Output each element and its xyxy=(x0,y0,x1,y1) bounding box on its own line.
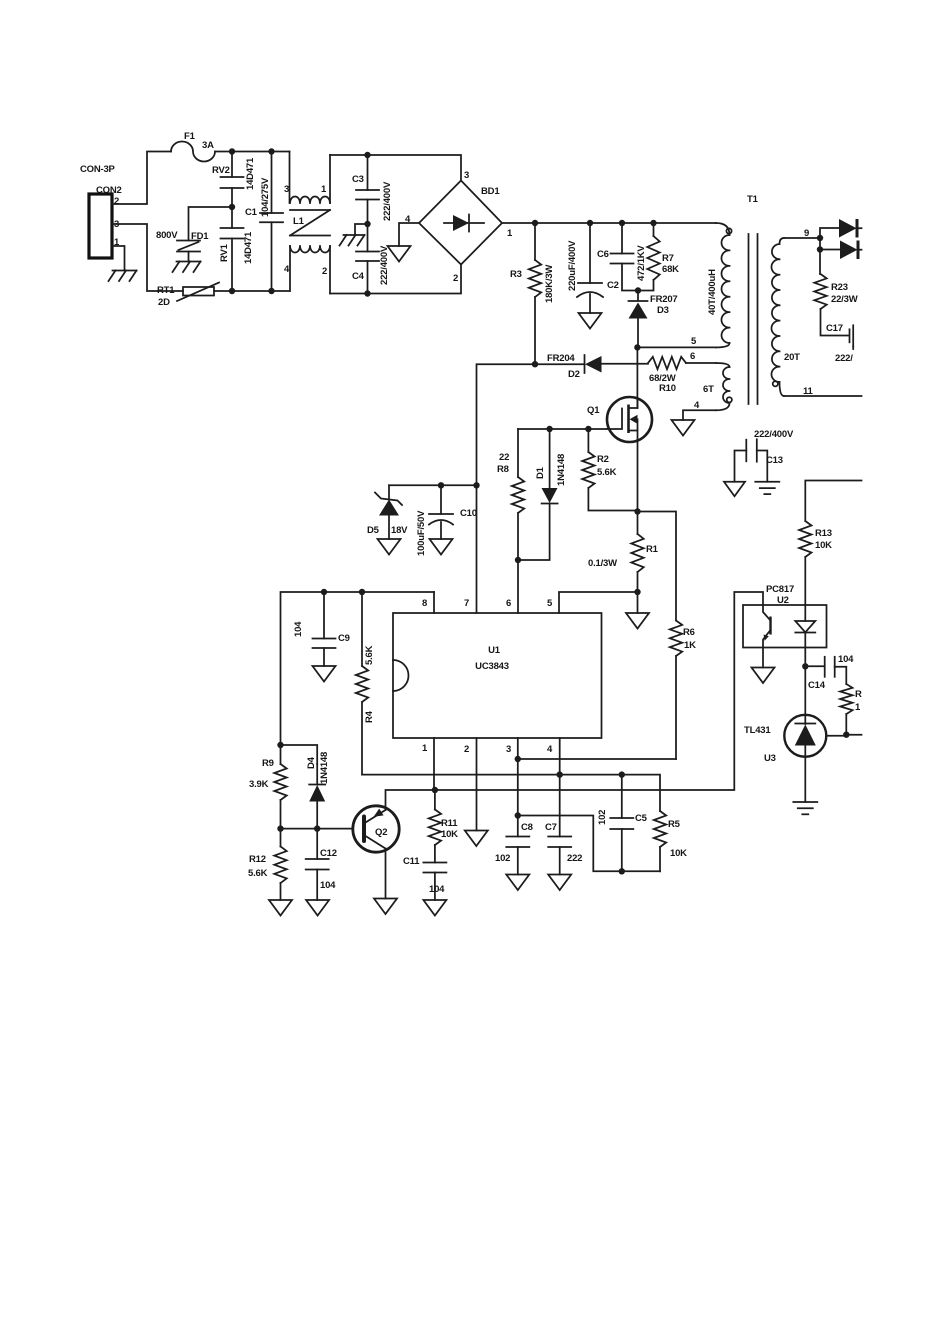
svg-text:2: 2 xyxy=(322,266,327,277)
svg-text:6T: 6T xyxy=(703,384,714,395)
wire pin9 dots xyxy=(819,238,821,250)
resistor R1 xyxy=(588,512,659,593)
capacitor 220uF/400V bulk xyxy=(567,223,603,313)
ground at T1 pin4 xyxy=(672,420,695,436)
svg-text:U1: U1 xyxy=(488,645,501,656)
svg-text:102: 102 xyxy=(597,810,608,825)
capacitor C14 xyxy=(805,654,854,691)
svg-text:3: 3 xyxy=(464,170,469,181)
resistor R23 xyxy=(814,250,857,336)
wire RT1 to L1 pin4 (bottom-left bus) xyxy=(214,290,290,292)
svg-text:R10: R10 xyxy=(659,383,676,394)
svg-text:R13: R13 xyxy=(815,528,832,539)
optocoupler U2 PC817 xyxy=(743,584,827,666)
node dot R9 top xyxy=(277,742,283,748)
wire source node to R6 xyxy=(638,512,677,621)
node dot TL431 ref node xyxy=(843,732,849,738)
svg-text:22/3W: 22/3W xyxy=(831,294,858,305)
wire R6 bottom to pin3 xyxy=(518,758,676,760)
wire opto emitter to ground xyxy=(762,648,764,668)
earth at C13 xyxy=(755,482,779,494)
svg-text:U3: U3 xyxy=(764,753,776,764)
svg-text:PC817: PC817 xyxy=(766,584,794,595)
resistor R2 xyxy=(582,429,637,511)
svg-text:9: 9 xyxy=(804,228,809,239)
ground at bulk cap xyxy=(579,313,602,329)
resistor R10 xyxy=(648,357,686,394)
svg-text:222/400V: 222/400V xyxy=(382,181,393,221)
node dot VCC rail xyxy=(473,482,479,488)
svg-text:R2: R2 xyxy=(597,454,609,465)
node dot divider mid xyxy=(277,825,283,831)
svg-text:800V: 800V xyxy=(156,230,178,241)
node dot R7 top xyxy=(650,220,656,226)
wire divider to Q2 base xyxy=(281,828,364,830)
resistor R13 xyxy=(799,521,832,605)
wire L1 pin2 to bridge bottom xyxy=(330,264,461,294)
capacitor C17 xyxy=(826,323,853,364)
chassis ground at C3/C4 midpoint xyxy=(340,235,365,246)
svg-text:C7: C7 xyxy=(545,822,557,833)
diode D2 FR204 xyxy=(547,353,602,380)
wire R13 top xyxy=(805,481,861,522)
ground at pin2 xyxy=(465,831,488,847)
wire fuse to L1 pin3 (top-left bus) xyxy=(215,151,290,153)
svg-text:RV2: RV2 xyxy=(212,165,230,176)
wire HV bus BD1 pin1 to T1 pin1 xyxy=(502,222,716,224)
bridge rectifier BD1 xyxy=(405,170,513,284)
node dot C1 top xyxy=(268,148,274,154)
ground at C9 xyxy=(313,666,336,682)
node dot TL431 cathode node xyxy=(802,663,808,669)
wire BD1 pin4 to primary ground xyxy=(399,223,419,246)
svg-text:4: 4 xyxy=(694,400,700,411)
svg-text:11: 11 xyxy=(803,386,814,397)
ground at R12 xyxy=(269,900,292,916)
ground at C8 xyxy=(506,875,529,891)
node dot C2 top xyxy=(619,220,625,226)
svg-text:6: 6 xyxy=(690,351,695,362)
svg-text:1: 1 xyxy=(855,702,861,713)
inductor L1 (common-mode choke) xyxy=(284,152,330,294)
node dot pin9 b xyxy=(817,246,823,252)
capacitor C1 xyxy=(245,152,283,292)
resistor R4 xyxy=(356,592,375,775)
transformer T1 secondary 20T winding xyxy=(771,238,800,396)
svg-text:T1: T1 xyxy=(747,194,759,205)
resistor R14 xyxy=(840,684,862,735)
svg-text:TL431: TL431 xyxy=(744,725,771,736)
svg-text:5: 5 xyxy=(691,336,697,347)
svg-text:C4: C4 xyxy=(352,271,365,282)
svg-text:10K: 10K xyxy=(441,829,458,840)
svg-text:C2: C2 xyxy=(607,280,619,291)
ground at opto emitter xyxy=(752,668,775,684)
wire L1 pin1 to bridge (top bus) xyxy=(330,155,461,181)
svg-text:D1: D1 xyxy=(535,466,546,479)
svg-text:R5: R5 xyxy=(668,819,681,830)
svg-text:C1: C1 xyxy=(245,207,258,218)
node dot C12 top xyxy=(314,825,320,831)
svg-text:1: 1 xyxy=(422,743,428,754)
wire junction to FD1 xyxy=(189,207,233,241)
svg-text:FR207: FR207 xyxy=(650,294,678,305)
svg-text:1N4148: 1N4148 xyxy=(556,454,567,486)
wire pin1 stub xyxy=(433,738,435,790)
svg-text:7: 7 xyxy=(464,598,469,609)
svg-text:100uF/50V: 100uF/50V xyxy=(416,510,427,556)
node dot C5 top xyxy=(619,771,625,777)
resistor R12 xyxy=(248,829,287,900)
connector CON2 (CON-3P) xyxy=(80,164,122,258)
svg-text:8: 8 xyxy=(422,598,427,609)
wire CON2 pin2 to fuse xyxy=(112,152,171,205)
svg-text:222: 222 xyxy=(567,853,582,864)
svg-text:22: 22 xyxy=(499,452,509,463)
capacitor C7 xyxy=(545,738,582,875)
svg-text:2D: 2D xyxy=(158,297,170,308)
svg-text:FR204: FR204 xyxy=(547,353,575,364)
svg-text:4: 4 xyxy=(547,744,553,755)
ground at C12 xyxy=(306,900,329,916)
wire R9 top to D4 xyxy=(281,745,318,764)
resistor R3 xyxy=(510,223,555,364)
svg-text:C6: C6 xyxy=(597,249,609,260)
svg-text:5.6K: 5.6K xyxy=(597,467,617,478)
svg-text:2: 2 xyxy=(114,196,119,207)
node dot D1 top xyxy=(546,426,552,432)
svg-text:1K: 1K xyxy=(684,640,696,651)
svg-text:D3: D3 xyxy=(657,305,669,316)
wire T1 pin6 from R10 xyxy=(686,351,716,363)
node dot RV2 top xyxy=(229,148,235,154)
svg-text:3.9K: 3.9K xyxy=(249,779,269,790)
diode D output bottom xyxy=(820,241,862,260)
capacitor C2 (snubber) xyxy=(597,223,647,291)
fuse F1 xyxy=(171,131,215,162)
diode D1 1N4148 xyxy=(518,429,567,560)
node dot pin9 a xyxy=(817,235,823,241)
svg-text:L1: L1 xyxy=(293,216,305,227)
wire gate rail xyxy=(518,428,607,430)
capacitor C5 xyxy=(597,775,648,872)
node dot pin4 bus xyxy=(557,771,563,777)
svg-text:C11: C11 xyxy=(403,856,420,867)
svg-text:C10: C10 xyxy=(460,508,477,519)
wire pin1 node to optocoupler xyxy=(435,592,763,790)
capacitor C4 xyxy=(352,224,390,294)
svg-text:68K: 68K xyxy=(662,264,679,275)
svg-text:R23: R23 xyxy=(831,282,848,293)
wire RT/CT bus xyxy=(362,775,660,811)
capacitor C11 xyxy=(403,856,446,900)
svg-text:104: 104 xyxy=(293,621,304,637)
svg-text:472/1KV: 472/1KV xyxy=(636,245,647,281)
svg-text:102: 102 xyxy=(495,853,510,864)
svg-text:104: 104 xyxy=(429,884,445,895)
capacitor C9 xyxy=(293,592,350,666)
wire T1 pin4 to ground xyxy=(683,400,716,420)
svg-text:U2: U2 xyxy=(777,595,789,606)
node dot RV2/RV1 junction xyxy=(229,204,235,210)
node dot C1 bottom xyxy=(268,288,274,294)
svg-text:R9: R9 xyxy=(262,758,274,769)
ground at C7 xyxy=(548,875,571,891)
node dot C3 top xyxy=(364,152,370,158)
resistor R7 (snubber) xyxy=(638,223,679,291)
node dot R8/D1 bottom xyxy=(515,557,521,563)
svg-text:10K: 10K xyxy=(815,540,832,551)
svg-text:R: R xyxy=(855,689,862,700)
ground (primary) at BD1 pin4 xyxy=(388,246,411,262)
node dot C4 bottom xyxy=(364,290,370,296)
diode D output top xyxy=(820,219,862,238)
node dot R4 top xyxy=(359,589,365,595)
svg-text:3: 3 xyxy=(284,184,289,195)
node dot pin3/R6 xyxy=(515,756,521,762)
svg-text:3A: 3A xyxy=(202,140,214,151)
svg-text:C9: C9 xyxy=(338,633,350,644)
svg-text:0.1/3W: 0.1/3W xyxy=(588,558,617,569)
svg-text:Q1: Q1 xyxy=(587,405,600,416)
svg-text:Q2: Q2 xyxy=(375,827,387,838)
wire R1 bottom to ground xyxy=(637,592,639,613)
svg-text:RT1: RT1 xyxy=(157,285,175,296)
transformer T1 core xyxy=(749,234,758,404)
node dot R1 bottom xyxy=(634,589,640,595)
resistor R5 xyxy=(654,811,687,871)
svg-text:F1: F1 xyxy=(184,131,196,142)
ground at Q2 xyxy=(374,899,397,915)
svg-text:14D471: 14D471 xyxy=(243,231,254,264)
node dot Q1 source node xyxy=(634,508,640,514)
svg-text:220uF/400V: 220uF/400V xyxy=(567,240,578,291)
svg-text:C3: C3 xyxy=(352,174,364,185)
svg-text:D2: D2 xyxy=(568,369,580,380)
svg-text:C14: C14 xyxy=(808,680,826,691)
ground at D5 xyxy=(378,539,401,555)
diode D3 FR207 xyxy=(629,291,678,348)
capacitor C13 222/400V xyxy=(735,429,794,482)
svg-text:104/275V: 104/275V xyxy=(260,177,271,217)
spark gap FD1 xyxy=(156,230,209,262)
svg-text:D4: D4 xyxy=(306,756,317,769)
wire slope-comp rail to C8 node xyxy=(518,816,660,872)
svg-text:4: 4 xyxy=(284,264,290,275)
node dot pin1 node xyxy=(432,787,438,793)
capacitor C3 xyxy=(352,155,393,224)
svg-text:2: 2 xyxy=(453,273,458,284)
svg-text:1: 1 xyxy=(507,228,513,239)
svg-text:222/400V: 222/400V xyxy=(754,429,794,440)
svg-text:R3: R3 xyxy=(510,269,522,280)
wire pin3 stub xyxy=(517,738,519,816)
svg-text:UC3843: UC3843 xyxy=(475,661,509,672)
node dot T1 pin5 junction xyxy=(634,344,640,350)
chassis ground under FD1 xyxy=(173,262,201,273)
svg-text:R8: R8 xyxy=(497,464,509,475)
svg-text:5.6K: 5.6K xyxy=(248,868,268,879)
svg-text:18V: 18V xyxy=(391,525,408,536)
wire CON2 pin1 to chassis xyxy=(112,246,125,271)
svg-text:3: 3 xyxy=(506,744,511,755)
wire D2 cathode to VCC (pin7 line) xyxy=(477,364,585,613)
svg-text:6: 6 xyxy=(506,598,511,609)
svg-text:RV1: RV1 xyxy=(219,243,230,262)
svg-text:C13: C13 xyxy=(766,455,783,466)
svg-text:CON2: CON2 xyxy=(96,185,122,196)
svg-text:40T/400uH: 40T/400uH xyxy=(707,269,718,315)
wire secondary pin11 xyxy=(784,386,862,397)
wire midpoint to chassis xyxy=(355,224,368,235)
capacitor C12 xyxy=(306,829,337,900)
transistor Q2 (PNP) xyxy=(353,790,435,899)
chassis ground at CON2 pin1 xyxy=(109,271,137,282)
node dot bulk cap top xyxy=(587,220,593,226)
varistor RV2 xyxy=(212,152,256,208)
diode D4 1N4148 xyxy=(306,752,330,829)
resistor R6 xyxy=(670,621,696,760)
node dot C3/C4 midpoint xyxy=(364,221,370,227)
wire pin2 stub to ground xyxy=(476,738,478,831)
wire secondary pin9 xyxy=(784,228,820,239)
node dot R3 bottom at D2 wire xyxy=(532,361,538,367)
svg-text:C17: C17 xyxy=(826,323,843,334)
svg-text:5.6K: 5.6K xyxy=(364,645,375,665)
wire R10 to D2 xyxy=(602,363,649,365)
svg-text:R1: R1 xyxy=(646,544,659,555)
wire pin8 stub xyxy=(433,592,435,613)
ground at C13 xyxy=(724,482,745,497)
svg-text:222/400V: 222/400V xyxy=(379,245,390,285)
ground at C10 xyxy=(430,539,453,555)
svg-text:10K: 10K xyxy=(670,848,687,859)
node dot RT1 bus 1 xyxy=(229,288,235,294)
node dot snubber bottom xyxy=(635,287,641,293)
svg-text:222/: 222/ xyxy=(835,353,853,364)
svg-text:D5: D5 xyxy=(367,525,380,536)
svg-text:1: 1 xyxy=(321,184,327,195)
svg-text:R4: R4 xyxy=(364,710,375,723)
svg-text:104: 104 xyxy=(320,880,336,891)
node dot R3 top xyxy=(532,220,538,226)
resistor R11 xyxy=(429,790,459,863)
svg-text:CON-3P: CON-3P xyxy=(80,164,116,175)
svg-text:1N4148: 1N4148 xyxy=(319,752,330,784)
wire pin5 stub to R1 bottom xyxy=(559,592,638,613)
wire pin6 stub xyxy=(517,560,519,613)
svg-text:BD1: BD1 xyxy=(481,186,500,197)
earth at TL431 xyxy=(793,802,817,814)
resistor R9 xyxy=(249,745,287,829)
op-amp U1 UC3843 xyxy=(393,598,602,755)
capacitor C8 xyxy=(495,812,533,874)
ground at C11 xyxy=(423,900,446,916)
capacitor C10 100uF/50V xyxy=(416,485,477,556)
wire Vref rail xyxy=(281,592,435,745)
svg-text:C5: C5 xyxy=(635,813,648,824)
varistor RV1 xyxy=(219,207,254,291)
zener diode D5 18V xyxy=(367,485,408,539)
wire ref node right xyxy=(846,734,861,736)
resistor R8 xyxy=(497,429,524,560)
svg-text:R7: R7 xyxy=(662,253,674,264)
transformer T1 aux 6T winding xyxy=(703,363,732,410)
ground at R1 xyxy=(626,613,649,629)
wire T1 pin5 xyxy=(637,336,716,347)
node dot R2 top xyxy=(585,426,591,432)
svg-text:R11: R11 xyxy=(441,818,458,829)
svg-text:2: 2 xyxy=(464,744,469,755)
svg-text:14D471: 14D471 xyxy=(245,157,256,190)
diode U3 TL431 xyxy=(744,666,846,802)
node dot C9 top xyxy=(321,589,327,595)
transformer T1 primary 40T winding xyxy=(707,194,759,347)
wire CON2 pin3 to RT1 xyxy=(112,224,183,291)
svg-text:C12: C12 xyxy=(320,848,337,859)
svg-text:20T: 20T xyxy=(784,352,800,363)
node dot C5 bottom xyxy=(619,868,625,874)
svg-text:C8: C8 xyxy=(521,822,533,833)
svg-text:R6: R6 xyxy=(683,627,695,638)
svg-text:R12: R12 xyxy=(249,854,266,865)
svg-text:FD1: FD1 xyxy=(191,231,209,242)
svg-text:180K/3W: 180K/3W xyxy=(544,265,555,303)
transistor Q1 (MOSFET) xyxy=(587,347,652,511)
svg-text:5: 5 xyxy=(547,598,553,609)
node dot C10 top xyxy=(438,482,444,488)
wire VCC rail to D5/C10 xyxy=(389,484,477,486)
thermistor RT1 xyxy=(157,283,219,309)
svg-text:104: 104 xyxy=(838,654,854,665)
